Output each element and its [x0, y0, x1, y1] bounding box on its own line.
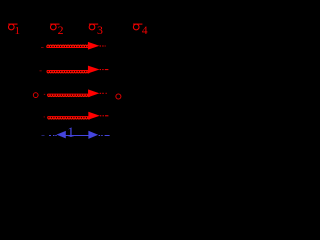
- svg-text:2: 2: [58, 23, 64, 37]
- svg-text:3: 3: [97, 23, 103, 37]
- svg-text:4: 4: [142, 25, 148, 37]
- svg-text:1: 1: [15, 25, 21, 37]
- svg-text:1: 1: [67, 125, 74, 141]
